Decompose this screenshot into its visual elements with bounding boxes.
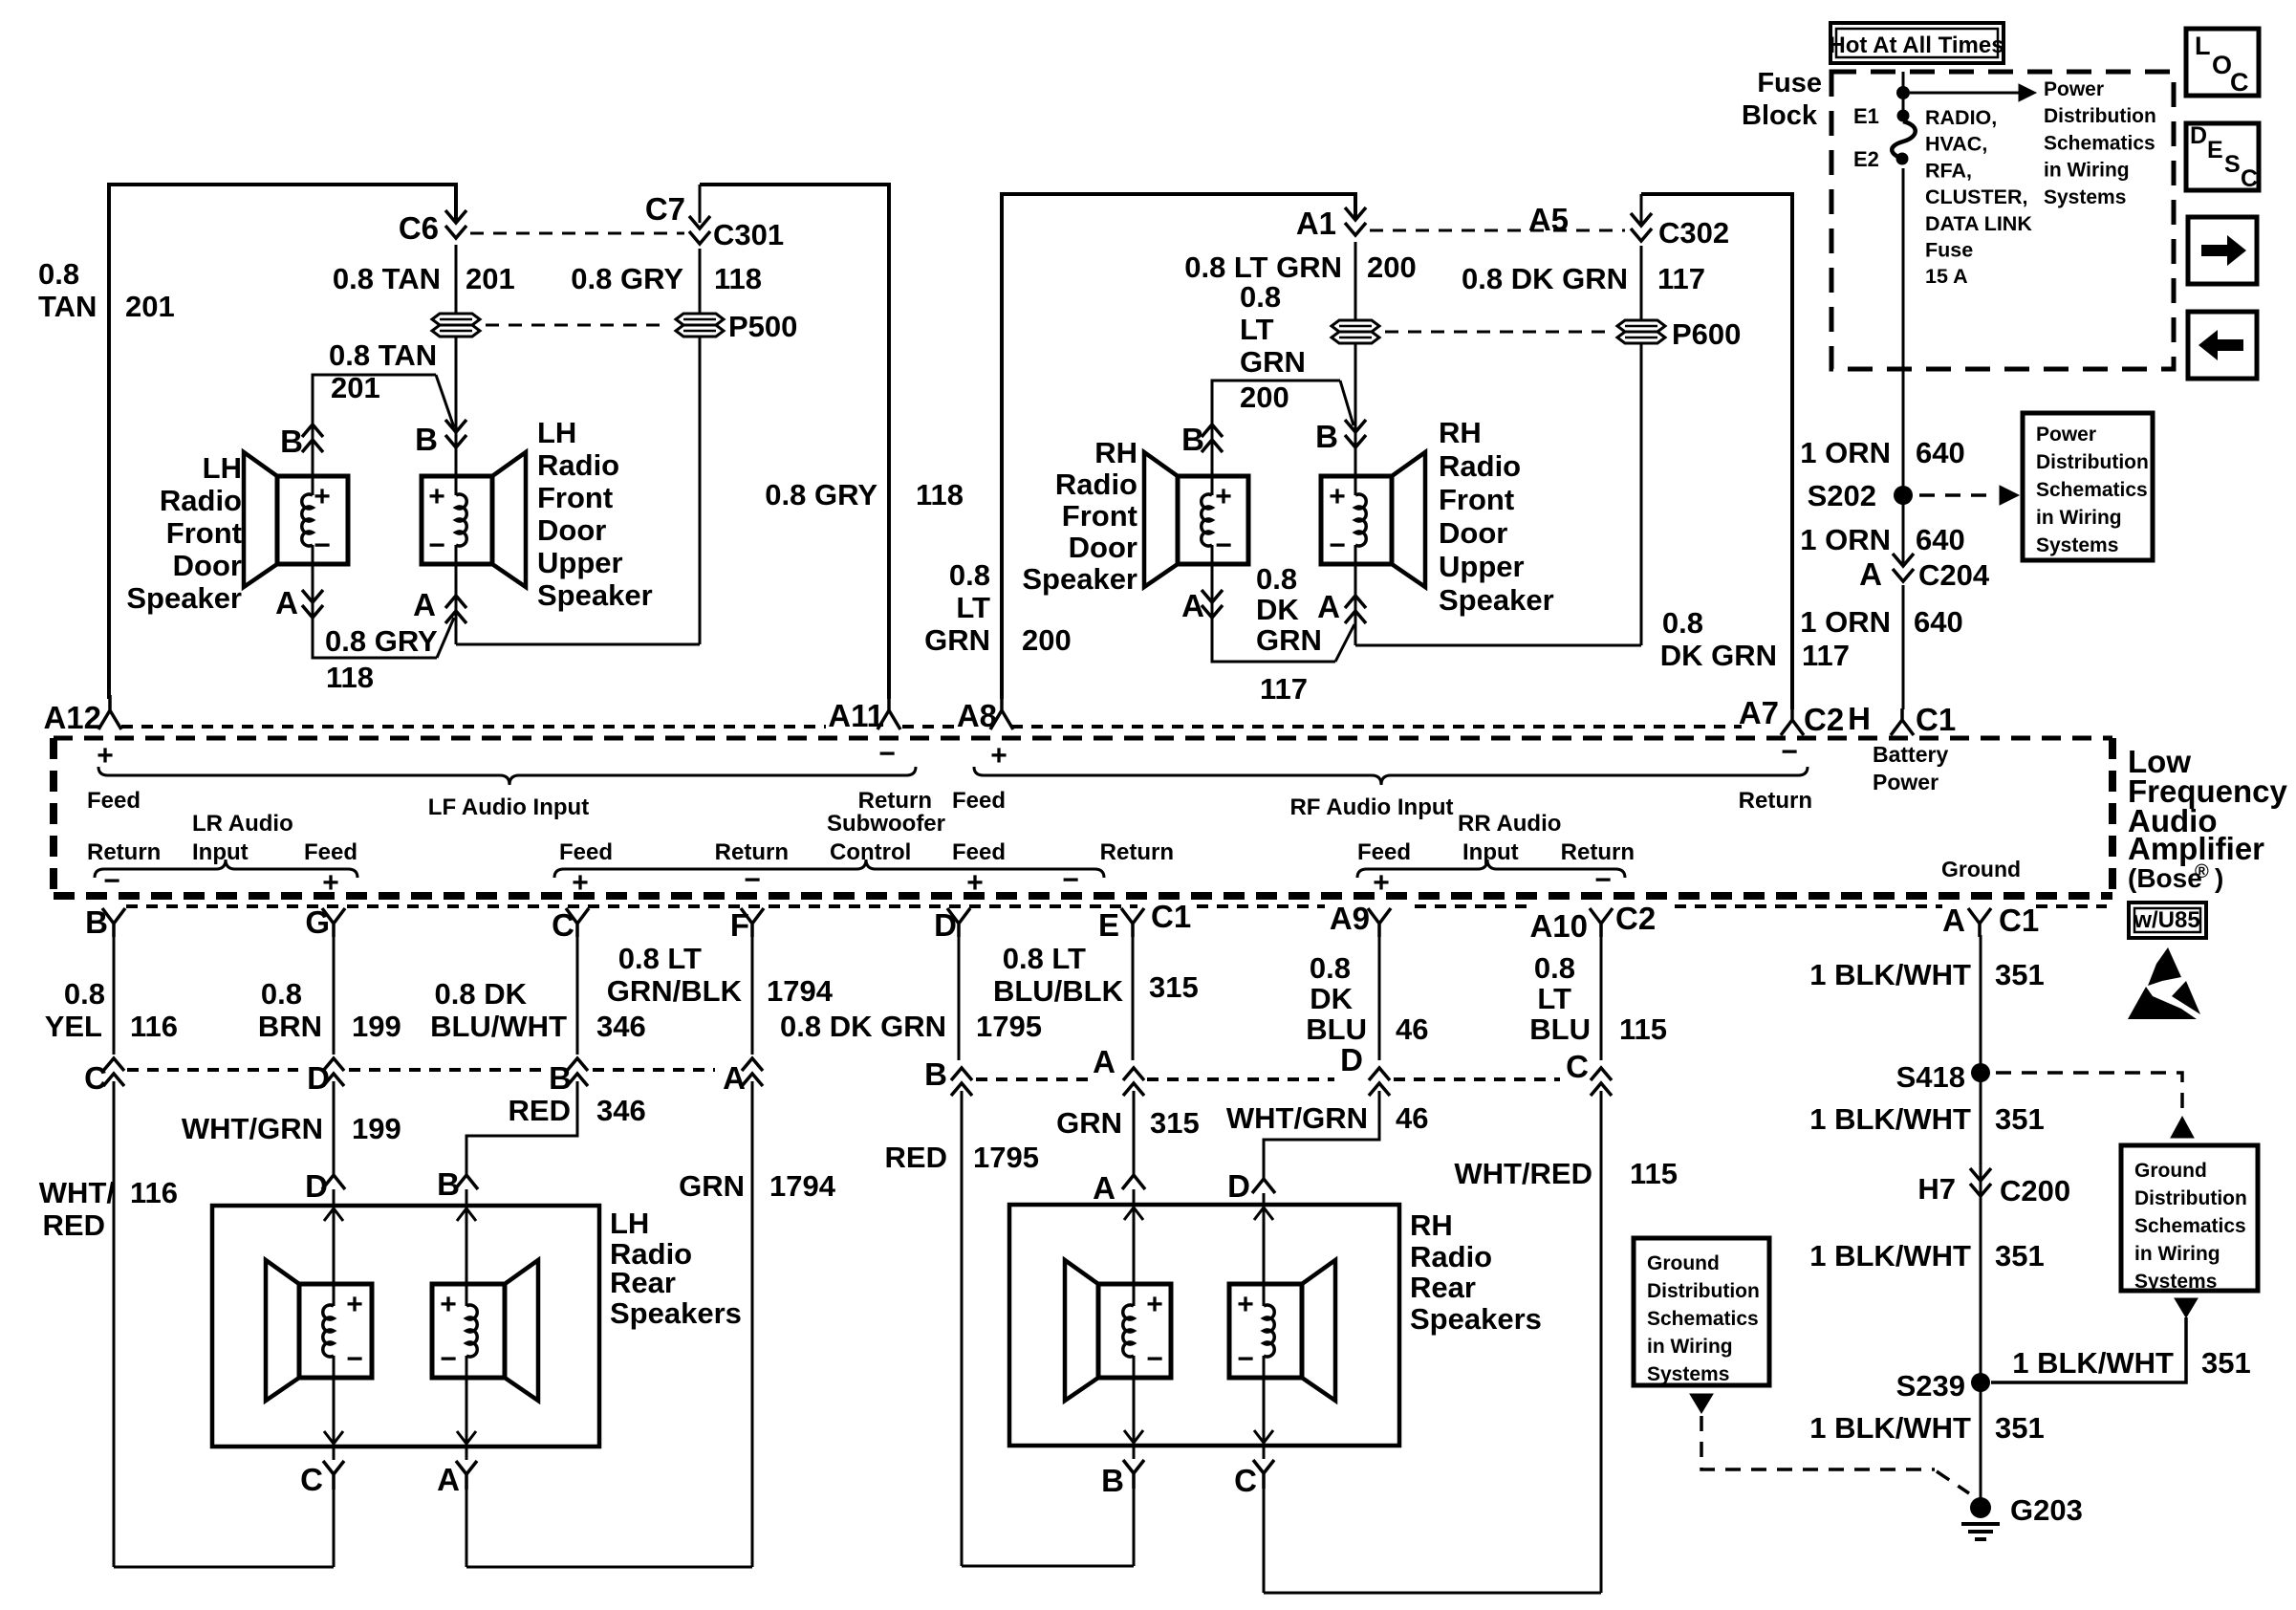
terminal A arrow RH upper speaker bbox=[1345, 596, 1366, 623]
svg-text:A: A bbox=[1859, 556, 1882, 592]
svg-text:®: ® bbox=[2195, 861, 2209, 882]
svg-text:B: B bbox=[924, 1056, 947, 1092]
svg-text:C2: C2 bbox=[1804, 702, 1844, 737]
svg-text:+: + bbox=[322, 867, 339, 899]
wire 0.8 LT BLU/BLK 315 amp E down bbox=[1132, 935, 1135, 1060]
speaker RH radio front door bbox=[1178, 476, 1248, 564]
svg-text:Hot At All Times: Hot At All Times bbox=[1829, 33, 2004, 58]
wire return x=732 C7 to P500 to bottom loop bbox=[699, 185, 702, 223]
svg-text:Input: Input bbox=[192, 839, 249, 865]
svg-text:1 BLK/WHT: 1 BLK/WHT bbox=[1809, 1411, 1971, 1445]
svg-text:LF Audio Input: LF Audio Input bbox=[428, 794, 589, 820]
svg-text:B: B bbox=[85, 904, 108, 940]
svg-text:): ) bbox=[2215, 863, 2223, 893]
svg-text:315: 315 bbox=[1149, 970, 1199, 1004]
wire RH rear C down to WHT/RED 115 bbox=[1263, 1489, 1266, 1593]
connector pin A1 arrow on RH upper feed wire bbox=[1345, 207, 1366, 235]
svg-text:(Bose: (Bose bbox=[2128, 863, 2202, 893]
inner wire 0.8 TAN 201 from LH door speaker B to upper feed bbox=[313, 375, 436, 409]
wire RED 1795 connector B down bbox=[961, 1091, 964, 1566]
svg-text:WHT/GRN: WHT/GRN bbox=[182, 1112, 323, 1145]
svg-text:RH: RH bbox=[1439, 416, 1482, 449]
svg-text:Door: Door bbox=[1069, 531, 1137, 564]
svg-text:1 ORN: 1 ORN bbox=[1800, 605, 1891, 639]
svg-text:200: 200 bbox=[1367, 250, 1417, 284]
svg-text:0.8: 0.8 bbox=[64, 977, 105, 1011]
svg-text:RR Audio: RR Audio bbox=[1458, 811, 1561, 837]
svg-text:RH: RH bbox=[1094, 436, 1137, 469]
wire WHT/RED 115 connector C down bbox=[1600, 1091, 1603, 1593]
svg-text:Feed: Feed bbox=[952, 788, 1006, 814]
svg-text:Front: Front bbox=[166, 516, 242, 550]
wire 0.8 LT GRN/BLK 1794 amp F down bbox=[751, 935, 754, 1055]
arrow from left ground box down bbox=[1690, 1394, 1713, 1413]
svg-text:+: + bbox=[314, 481, 331, 512]
svg-text:F: F bbox=[730, 907, 749, 943]
svg-text:A8: A8 bbox=[957, 698, 997, 733]
wire A1 to P600 bbox=[1354, 242, 1357, 319]
svg-text:0.8: 0.8 bbox=[38, 257, 79, 291]
box Hot At All Times bbox=[1830, 23, 2004, 63]
svg-text:B: B bbox=[1315, 419, 1338, 454]
wire 0.8 LT GRN 200 feed loop from amp pin A8 (RH box outline) bbox=[1002, 194, 1355, 699]
svg-text:C: C bbox=[300, 1462, 323, 1497]
svg-text:G203: G203 bbox=[2010, 1493, 2083, 1527]
arrow from right ground box down bbox=[2175, 1298, 2198, 1317]
svg-text:1794: 1794 bbox=[769, 1169, 836, 1203]
svg-text:1795: 1795 bbox=[973, 1141, 1039, 1174]
svg-text:BLU: BLU bbox=[1306, 1012, 1367, 1046]
box left arrow icon bbox=[2188, 312, 2257, 379]
svg-text:+: + bbox=[1215, 481, 1232, 512]
svg-text:Return: Return bbox=[87, 839, 161, 865]
svg-text:HVAC,: HVAC, bbox=[1925, 133, 1987, 156]
svg-text:Return: Return bbox=[1561, 839, 1635, 865]
connector pin C RH rear bbox=[1591, 1068, 1612, 1096]
svg-text:Power: Power bbox=[2036, 424, 2096, 446]
svg-text:LT: LT bbox=[956, 591, 990, 624]
connector pin D LH rear bbox=[323, 1058, 344, 1086]
svg-text:WHT/: WHT/ bbox=[39, 1176, 116, 1209]
wire into LH rear speaker 1 bbox=[333, 1189, 336, 1284]
svg-text:D: D bbox=[1340, 1042, 1363, 1077]
svg-text:Control: Control bbox=[830, 839, 911, 865]
connector pin A LH rear bbox=[742, 1058, 763, 1086]
svg-text:Systems: Systems bbox=[1647, 1363, 1729, 1385]
connector C200 pin H7 arrow bbox=[1970, 1168, 1991, 1196]
svg-text:Distribution: Distribution bbox=[2044, 105, 2156, 127]
svg-text:O: O bbox=[2212, 51, 2232, 79]
svg-text:200: 200 bbox=[1022, 623, 1072, 657]
svg-text:346: 346 bbox=[596, 1094, 646, 1127]
svg-text:in Wiring: in Wiring bbox=[2036, 507, 2122, 529]
wire battery feed into fuse block bbox=[1902, 72, 1905, 113]
svg-text:C301: C301 bbox=[713, 218, 784, 251]
svg-text:Front: Front bbox=[1439, 483, 1514, 516]
svg-text:A: A bbox=[723, 1060, 746, 1096]
label w/U85 box bbox=[2129, 903, 2206, 938]
wire out RH rear speaker 1 bbox=[1133, 1378, 1136, 1459]
svg-text:−: − bbox=[744, 864, 761, 896]
low frequency audio amplifier dashed box bbox=[54, 736, 2112, 741]
wire 0.8 DK BLU/WHT 346 amp C down bbox=[576, 935, 579, 1055]
svg-text:Speakers: Speakers bbox=[610, 1296, 742, 1330]
svg-text:Return: Return bbox=[715, 839, 789, 865]
svg-text:D: D bbox=[1227, 1168, 1250, 1204]
svg-text:Ground: Ground bbox=[1941, 857, 2021, 881]
inner wire 0.8 LT GRN 200 RH door B to upper feed bbox=[1212, 381, 1340, 424]
svg-text:Radio: Radio bbox=[1410, 1240, 1492, 1273]
amp pin A11 bbox=[877, 695, 900, 729]
svg-text:116: 116 bbox=[130, 1176, 178, 1209]
svg-text:RED: RED bbox=[885, 1141, 947, 1174]
svg-text:LH: LH bbox=[537, 416, 576, 449]
svg-text:C7: C7 bbox=[645, 191, 685, 227]
svg-text:Systems: Systems bbox=[2044, 186, 2126, 208]
dashed line left ground box to G203 bbox=[1701, 1416, 1935, 1469]
terminal B arrow LH door speaker bbox=[302, 424, 323, 452]
svg-text:117: 117 bbox=[1802, 639, 1850, 672]
svg-text:BLU/BLK: BLU/BLK bbox=[993, 974, 1124, 1008]
svg-text:Ground: Ground bbox=[1647, 1252, 1720, 1274]
wire segment C6 to P500 on x=477 bbox=[455, 245, 458, 313]
svg-text:RADIO,: RADIO, bbox=[1925, 106, 1997, 129]
svg-text:Ground: Ground bbox=[2134, 1160, 2207, 1182]
svg-text:115: 115 bbox=[1619, 1012, 1667, 1046]
svg-text:LT: LT bbox=[1240, 313, 1274, 346]
svg-text:118: 118 bbox=[326, 661, 374, 694]
svg-text:1794: 1794 bbox=[767, 974, 834, 1008]
amp connector face C2 thin dashed line bottom right bbox=[1197, 904, 1325, 908]
svg-text:LH: LH bbox=[203, 451, 242, 485]
svg-text:−: − bbox=[878, 738, 896, 770]
wire out LH rear speaker 2 bbox=[466, 1378, 468, 1460]
svg-text:640: 640 bbox=[1916, 436, 1965, 469]
svg-text:BRN: BRN bbox=[258, 1010, 322, 1043]
box LOC icon bbox=[2186, 29, 2259, 96]
svg-text:−: − bbox=[1215, 530, 1232, 561]
connector pin C6 arrow on LH upper speaker feed wire bbox=[445, 210, 466, 238]
svg-text:351: 351 bbox=[1995, 1102, 2045, 1136]
svg-text:w/U85: w/U85 bbox=[2133, 907, 2199, 933]
splice S202 bbox=[1894, 486, 1913, 505]
box Power Distribution Schematics in Wiring Systems (S202) bbox=[2023, 413, 2153, 560]
wire LH rear A down to GRN 1794 bbox=[466, 1490, 468, 1567]
wire into LH rear speaker 2 bbox=[466, 1189, 468, 1284]
amp pin H bbox=[1891, 708, 1914, 735]
svg-text:S: S bbox=[2224, 151, 2241, 178]
svg-text:−: − bbox=[314, 530, 331, 561]
ground G203 bbox=[1970, 1497, 1991, 1518]
svg-text:1795: 1795 bbox=[976, 1010, 1042, 1043]
svg-text:P600: P600 bbox=[1672, 317, 1741, 351]
svg-text:RED: RED bbox=[43, 1208, 105, 1242]
svg-text:Front: Front bbox=[537, 481, 613, 514]
svg-text:0.8: 0.8 bbox=[1310, 951, 1351, 985]
svg-text:Block: Block bbox=[1742, 100, 1818, 131]
svg-text:+: + bbox=[572, 867, 589, 899]
svg-text:H: H bbox=[1848, 701, 1871, 736]
svg-text:C1: C1 bbox=[1151, 899, 1191, 934]
speaker RH rear right bbox=[1229, 1284, 1302, 1378]
svg-text:46: 46 bbox=[1396, 1012, 1428, 1046]
amp pin B bbox=[102, 908, 125, 937]
amp pin A12 bbox=[98, 695, 121, 729]
svg-text:1 ORN: 1 ORN bbox=[1800, 523, 1891, 556]
wire 0.8 DK GRN 1795 amp D down bbox=[958, 935, 961, 1060]
svg-text:B: B bbox=[280, 424, 303, 459]
terminal D arrow LH rear bbox=[322, 1175, 345, 1189]
svg-text:Speaker: Speaker bbox=[1439, 583, 1554, 617]
svg-text:A: A bbox=[1942, 903, 1965, 938]
svg-text:C1: C1 bbox=[1999, 903, 2039, 938]
svg-text:A: A bbox=[413, 587, 436, 622]
svg-text:199: 199 bbox=[352, 1112, 401, 1145]
amp pin A9 bbox=[1368, 908, 1391, 937]
svg-text:LT: LT bbox=[1537, 982, 1571, 1015]
wire 0.8 LT BLU 115 amp A10 down bbox=[1600, 935, 1603, 1060]
svg-text:A: A bbox=[1317, 589, 1340, 624]
svg-text:TAN: TAN bbox=[38, 290, 97, 323]
svg-text:C302: C302 bbox=[1658, 216, 1729, 250]
speaker LH radio front door upper bbox=[422, 476, 492, 564]
dashed tie line P600 bbox=[1385, 331, 1612, 334]
wire into RH rear speaker 2 bbox=[1263, 1193, 1266, 1284]
terminal A arrow LH upper speaker bbox=[445, 596, 466, 623]
wire GRN 315 connector A to rear speaker bbox=[1133, 1091, 1136, 1174]
connector pin C RH rear harness bbox=[1253, 1460, 1274, 1489]
svg-text:A7: A7 bbox=[1739, 695, 1779, 730]
svg-text:Radio: Radio bbox=[537, 448, 619, 482]
connector pin C LH rear harness bbox=[323, 1461, 344, 1490]
svg-text:E: E bbox=[2207, 137, 2223, 163]
svg-text:+: + bbox=[1237, 1289, 1254, 1320]
svg-text:0.8: 0.8 bbox=[1662, 606, 1703, 640]
wire return top segment to A7 drop bbox=[1641, 194, 1792, 709]
wire RH upper A down to return loop bbox=[1354, 617, 1357, 645]
svg-text:Schematics: Schematics bbox=[2134, 1215, 2246, 1237]
terminal B arrow LH upper speaker bbox=[445, 420, 466, 447]
wire through LH door speaker B to A bbox=[312, 375, 314, 476]
connector pin B RH rear bbox=[951, 1068, 972, 1096]
svg-text:118: 118 bbox=[714, 262, 762, 295]
dashed arrow S202 to power distribution box bbox=[1919, 493, 1996, 497]
svg-text:Schematics: Schematics bbox=[2044, 132, 2155, 154]
svg-text:GRN: GRN bbox=[1056, 1106, 1122, 1140]
svg-text:640: 640 bbox=[1914, 605, 1963, 639]
svg-text:0.8 DK: 0.8 DK bbox=[435, 977, 528, 1011]
connector pin A LH rear harness bbox=[456, 1461, 477, 1490]
bracket LF Audio Input (pins A12-A11) bbox=[98, 767, 916, 785]
terminal B arrow RH upper speaker bbox=[1345, 420, 1366, 447]
bracket LR Audio Input (pins B-G) bbox=[95, 859, 357, 878]
svg-text:200: 200 bbox=[1240, 381, 1289, 414]
RH rear speaker connector dashed line bbox=[976, 1077, 1092, 1081]
svg-text:−: − bbox=[346, 1343, 363, 1375]
svg-text:C200: C200 bbox=[2000, 1174, 2070, 1207]
svg-text:1 ORN: 1 ORN bbox=[1800, 436, 1891, 469]
LH rear speaker connector dashed line bbox=[127, 1068, 298, 1072]
svg-text:−: − bbox=[1329, 530, 1346, 561]
terminal B arrow RH door speaker bbox=[1202, 424, 1223, 452]
wire WHT/GRN 46 jog connector D to rear speaker D bbox=[1264, 1091, 1379, 1178]
svg-text:0.8 DK GRN: 0.8 DK GRN bbox=[780, 1010, 946, 1043]
svg-text:Power: Power bbox=[2044, 78, 2104, 100]
svg-text:+: + bbox=[440, 1289, 457, 1320]
svg-text:Door: Door bbox=[173, 549, 242, 582]
svg-text:Rear: Rear bbox=[1410, 1271, 1476, 1304]
svg-text:DK: DK bbox=[1310, 982, 1353, 1015]
svg-text:+: + bbox=[97, 740, 114, 772]
svg-text:+: + bbox=[1329, 481, 1346, 512]
connector pin C7 arrow (C301) bbox=[689, 216, 710, 244]
svg-text:117: 117 bbox=[1657, 262, 1705, 295]
svg-text:A9: A9 bbox=[1330, 901, 1370, 936]
wire WHT/GRN 199 connector D to rear speaker bbox=[333, 1081, 336, 1174]
svg-text:WHT/GRN: WHT/GRN bbox=[1226, 1101, 1368, 1135]
svg-text:0.8: 0.8 bbox=[1240, 280, 1281, 314]
amp pin G bbox=[322, 908, 345, 937]
svg-text:Speaker: Speaker bbox=[537, 578, 653, 612]
wire 0.8 TAN 201 feed loop from amp pin A12 (left box outline) bbox=[109, 185, 456, 699]
svg-text:GRN: GRN bbox=[1256, 623, 1322, 657]
svg-text:−: − bbox=[103, 865, 120, 897]
svg-text:+: + bbox=[1373, 867, 1390, 899]
svg-text:Battery: Battery bbox=[1873, 742, 1948, 767]
wire 0.8 BRN 199 amp G down bbox=[333, 935, 336, 1055]
svg-text:201: 201 bbox=[125, 290, 175, 323]
svg-text:0.8: 0.8 bbox=[1534, 951, 1575, 985]
svg-text:351: 351 bbox=[1995, 958, 2045, 991]
svg-text:E1: E1 bbox=[1853, 104, 1879, 128]
svg-text:Distribution: Distribution bbox=[1647, 1280, 1760, 1302]
box Ground Distribution Schematics in Wiring Systems right bbox=[2121, 1145, 2258, 1291]
svg-text:C: C bbox=[1566, 1049, 1589, 1084]
svg-text:201: 201 bbox=[331, 371, 380, 404]
svg-text:−: − bbox=[1781, 736, 1798, 768]
junction dot to power distribution arrow bbox=[1896, 86, 1910, 99]
svg-text:Distribution: Distribution bbox=[2134, 1187, 2247, 1209]
svg-text:Power: Power bbox=[1873, 770, 1939, 794]
svg-text:Feed: Feed bbox=[304, 839, 357, 865]
splice S418 bbox=[1971, 1063, 1990, 1082]
svg-text:Upper: Upper bbox=[537, 546, 623, 579]
svg-text:Feed: Feed bbox=[559, 839, 613, 865]
wire 1 ORN 640 from fuse to amp H pin bbox=[1902, 168, 1905, 369]
inner wire 0.8 GRY 118 door A to upper A bbox=[313, 617, 437, 658]
amp connector face C2/C1 thin dashed line top bbox=[121, 725, 826, 729]
wire return x=1717 bbox=[1640, 194, 1643, 226]
speaker RH rear left bbox=[1098, 1284, 1171, 1378]
inner wire 0.8 DK GRN 117 RH door A to upper A bbox=[1212, 619, 1335, 662]
wire 1 BLK/WHT 351 ground from amp pin A bbox=[1980, 935, 1982, 1499]
wire P600 down to RH upper speaker B bbox=[1354, 344, 1357, 409]
svg-text:C2: C2 bbox=[1615, 901, 1656, 936]
svg-text:0.8: 0.8 bbox=[261, 977, 302, 1011]
pass-through grommet P600 right half bbox=[1617, 320, 1665, 332]
amp pin C bbox=[566, 908, 589, 937]
svg-text:Input: Input bbox=[1462, 839, 1519, 865]
svg-text:E2: E2 bbox=[1853, 147, 1879, 171]
svg-text:0.8: 0.8 bbox=[949, 558, 990, 592]
speaker RH radio front door upper bbox=[1321, 476, 1392, 564]
pass-through grommet P600 left half bbox=[1332, 320, 1379, 332]
svg-text:Systems: Systems bbox=[2134, 1271, 2217, 1293]
svg-text:46: 46 bbox=[1396, 1101, 1428, 1135]
speaker LH rear left bbox=[299, 1284, 372, 1378]
wire 1 BLK/WHT 351 from box to S239 bbox=[1991, 1317, 2186, 1382]
svg-text:640: 640 bbox=[1916, 523, 1965, 556]
LH rear speakers outline box bbox=[212, 1206, 599, 1447]
svg-text:0.8 GRY: 0.8 GRY bbox=[325, 624, 438, 658]
svg-text:Systems: Systems bbox=[2036, 534, 2118, 556]
svg-text:C: C bbox=[84, 1060, 107, 1096]
svg-text:Feed: Feed bbox=[87, 788, 141, 814]
svg-text:Radio: Radio bbox=[160, 484, 242, 517]
svg-text:Return: Return bbox=[1100, 839, 1174, 865]
svg-text:C: C bbox=[2230, 68, 2249, 97]
terminal A arrow RH door speaker bbox=[1202, 590, 1223, 618]
svg-text:H7: H7 bbox=[1917, 1172, 1956, 1206]
svg-text:B: B bbox=[1101, 1463, 1124, 1498]
svg-text:0.8 TAN: 0.8 TAN bbox=[333, 262, 441, 295]
svg-text:Schematics: Schematics bbox=[2036, 479, 2148, 501]
svg-text:Schematics: Schematics bbox=[1647, 1308, 1759, 1330]
arrow to power distribution schematics bbox=[1910, 92, 2019, 95]
svg-text:CLUSTER,: CLUSTER, bbox=[1925, 185, 2028, 208]
svg-text:A10: A10 bbox=[1529, 908, 1588, 944]
pass-through grommet P500 left half bbox=[432, 314, 480, 325]
amp pin A ground bbox=[1968, 908, 1991, 937]
amp pin F bbox=[741, 908, 764, 937]
amp pin D bbox=[947, 908, 970, 937]
wire GRN 1794 connector A down bbox=[751, 1081, 754, 1567]
speaker LH rear right bbox=[432, 1284, 505, 1378]
wire through RH upper speaker bbox=[1354, 347, 1357, 476]
terminal D arrow RH rear bbox=[1252, 1179, 1275, 1193]
dashed connector tie line C6-C7 of C301 bbox=[470, 232, 684, 235]
svg-text:Return: Return bbox=[1739, 788, 1812, 814]
svg-text:+: + bbox=[428, 481, 445, 512]
svg-text:117: 117 bbox=[1260, 672, 1308, 706]
svg-text:Fuse: Fuse bbox=[1757, 68, 1822, 98]
svg-text:351: 351 bbox=[1995, 1411, 2045, 1445]
svg-text:+: + bbox=[346, 1289, 363, 1320]
svg-text:B: B bbox=[415, 422, 438, 457]
svg-text:GRN: GRN bbox=[679, 1169, 745, 1203]
connector pin B LH rear bbox=[567, 1058, 588, 1086]
wire return top segment to 0.8 GRY 118 drop bbox=[700, 185, 889, 699]
svg-text:C: C bbox=[1234, 1463, 1257, 1498]
svg-text:0.8 DK GRN: 0.8 DK GRN bbox=[1462, 262, 1628, 295]
svg-text:LR Audio: LR Audio bbox=[192, 811, 293, 837]
svg-text:0.8 GRY: 0.8 GRY bbox=[765, 478, 877, 511]
svg-text:BLU/WHT: BLU/WHT bbox=[430, 1010, 567, 1043]
svg-text:C1: C1 bbox=[1916, 702, 1956, 737]
svg-text:Return: Return bbox=[858, 788, 932, 814]
svg-text:S202: S202 bbox=[1808, 479, 1876, 512]
fuse element RADIO HVAC RFA CLUSTER DATA LINK Fuse 15A bbox=[1897, 110, 1910, 122]
svg-text:Door: Door bbox=[1439, 516, 1507, 550]
svg-text:A: A bbox=[1181, 588, 1204, 623]
wire through RH door speaker bbox=[1211, 381, 1214, 476]
box DESC icon bbox=[2186, 123, 2259, 190]
svg-text:E: E bbox=[1098, 907, 1119, 943]
svg-text:116: 116 bbox=[130, 1010, 178, 1043]
connector pin A RH rear bbox=[1123, 1068, 1144, 1096]
svg-text:C6: C6 bbox=[399, 210, 439, 246]
svg-text:D: D bbox=[305, 1168, 328, 1204]
